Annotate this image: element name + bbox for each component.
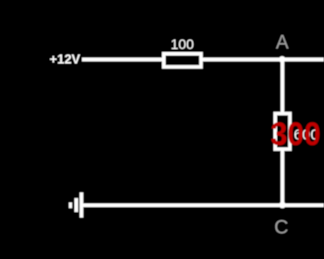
resistor R1 (box): [164, 54, 201, 67]
svg-text:C: C: [274, 216, 288, 238]
wire top rail from +12V to right edge: [82, 58, 324, 62]
resistor R2 (vertical box): [275, 114, 290, 150]
node C junction dot: [279, 202, 286, 209]
node A junction dot: [279, 56, 285, 62]
svg-text:100: 100: [171, 36, 195, 52]
ground symbol: [69, 192, 83, 217]
svg-text:+12V: +12V: [50, 52, 81, 67]
svg-text:A: A: [276, 33, 289, 54]
wire bottom rail from ground to right edge: [83, 203, 324, 207]
svg-text:300: 300: [271, 116, 321, 152]
wire vertical from node A to node C: [281, 59, 285, 205]
